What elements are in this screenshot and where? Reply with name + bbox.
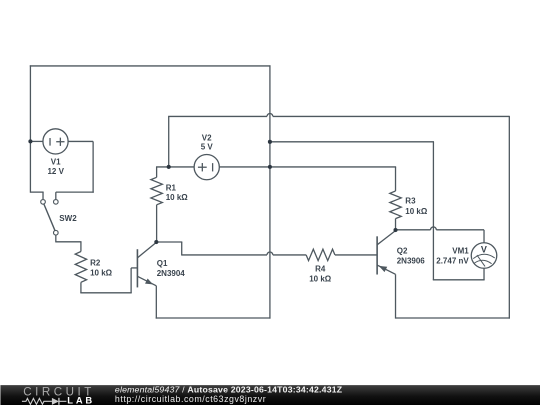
svg-text:R1: R1 — [166, 184, 177, 193]
svg-text:Q1: Q1 — [157, 259, 168, 268]
svg-text:2N3906: 2N3906 — [397, 257, 426, 266]
svg-text:V1: V1 — [51, 157, 61, 166]
svg-text:R2: R2 — [90, 258, 101, 267]
svg-text:V2: V2 — [202, 134, 212, 143]
svg-text:V: V — [481, 244, 487, 254]
svg-text:10 kΩ: 10 kΩ — [405, 207, 428, 216]
svg-text:2.747 nV: 2.747 nV — [436, 256, 469, 265]
svg-text:10 kΩ: 10 kΩ — [90, 269, 113, 278]
svg-text:Q2: Q2 — [397, 247, 408, 256]
svg-text:VM1: VM1 — [452, 246, 469, 255]
svg-text:12 V: 12 V — [47, 167, 64, 176]
svg-text:10 kΩ: 10 kΩ — [309, 275, 332, 284]
svg-text:R4: R4 — [315, 265, 326, 274]
svg-text:5 V: 5 V — [201, 143, 214, 152]
svg-text:R3: R3 — [405, 197, 416, 206]
svg-text:10 kΩ: 10 kΩ — [166, 193, 189, 202]
svg-text:http://circuitlab.com/ct63zgv8: http://circuitlab.com/ct63zgv8jnzvr — [115, 394, 266, 404]
svg-text:2N3904: 2N3904 — [157, 269, 186, 278]
svg-text:SW2: SW2 — [59, 214, 77, 223]
svg-text:LAB: LAB — [67, 395, 95, 405]
